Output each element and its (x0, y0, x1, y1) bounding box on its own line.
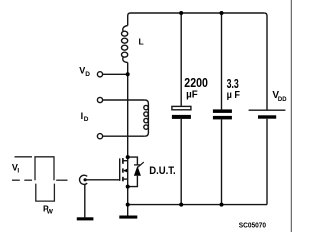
svg-text:DD: DD (278, 96, 287, 103)
label 3.3 uF (227, 76, 241, 101)
node top rail C1 (179, 11, 183, 15)
wire inductor top lead (128, 13, 131, 26)
transistor Q1 D.U.T. (120, 158, 128, 181)
svg-text:I: I (17, 168, 19, 175)
node bottom rail C2 (220, 203, 224, 207)
svg-text:D: D (85, 71, 90, 78)
current sense coil (144, 100, 149, 136)
capacitor C1 2200uF branch top wire (180, 13, 182, 106)
node bottom rail at source (126, 203, 130, 207)
ground under DUT (119, 216, 137, 219)
label VD (79, 65, 90, 78)
capacitor C2 3.3uF branch top wire (221, 13, 223, 109)
capacitor C2 bottom wire (221, 119, 223, 204)
wire gate (85, 179, 120, 181)
label PW (43, 203, 54, 215)
pulse waveform VI (12, 157, 68, 201)
label 2200 uF (184, 75, 208, 101)
capacitor C2 plates (213, 109, 232, 119)
wire drain column (127, 63, 129, 216)
wire ID upper (103, 99, 145, 101)
label VDD (272, 90, 286, 103)
svg-text:D.U.T.: D.U.T. (149, 165, 176, 177)
diode body (128, 157, 144, 187)
wire VD (103, 73, 128, 75)
wire top rail (131, 12, 265, 14)
node drain junction (126, 155, 130, 159)
node bottom rail C1 (179, 203, 183, 207)
inductor L (122, 26, 128, 63)
battery VDD bottom wire (266, 119, 268, 205)
svg-text:SC05070: SC05070 (239, 220, 266, 229)
capacitor C1 bottom wire (180, 119, 182, 205)
capacitor C1 plates (172, 106, 191, 119)
node source junction (126, 185, 130, 189)
wire bottom rail (128, 204, 267, 206)
label ID (81, 111, 89, 123)
node VD junction (126, 72, 130, 76)
terminal ID lower circle (97, 134, 102, 139)
battery VDD branch top wire (264, 13, 267, 110)
svg-text:µ F: µ F (227, 89, 241, 101)
border right edge (290, 0, 292, 232)
svg-text:D: D (84, 116, 89, 123)
svg-text:I: I (81, 111, 84, 121)
svg-text:µF: µF (186, 88, 198, 100)
wire ID lower (103, 135, 145, 137)
wire generator to ground (84, 184, 86, 217)
node top rail C2 (220, 11, 224, 15)
battery VDD plates (249, 110, 286, 119)
terminal ID upper circle (97, 97, 102, 102)
ground under generator (77, 217, 94, 220)
svg-text:W: W (47, 209, 54, 216)
label VI (12, 162, 20, 174)
svg-text:L: L (139, 36, 144, 46)
terminal VD circle (97, 72, 102, 77)
generator G1 (80, 175, 88, 184)
